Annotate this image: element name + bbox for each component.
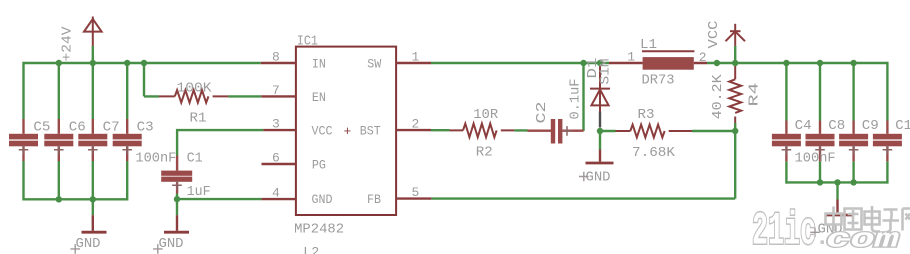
svg-text:C2: C2 [534, 102, 550, 124]
inductor L1 DR73 [609, 51, 707, 69]
pin 8 IN stub [261, 62, 296, 64]
svg-text:3: 3 [272, 117, 280, 132]
svg-text:2: 2 [699, 50, 707, 65]
svg-text:21ic: 21ic [752, 206, 816, 254]
svg-text:C5: C5 [33, 120, 50, 136]
node dot rail C4 [783, 60, 789, 66]
pin 5 FB stub [396, 197, 431, 199]
svg-text:1uF: 1uF [187, 184, 211, 200]
watermark 21ic.com + chinese characters [752, 206, 910, 254]
node dot rail R1 branch [141, 60, 147, 66]
resistor R1 100K [159, 90, 228, 103]
svg-text:IC1: IC1 [297, 34, 318, 50]
svg-text:7.68K: 7.68K [632, 145, 676, 161]
diode D1 dark anode lead [599, 112, 601, 128]
resistor R3 7.68K [616, 125, 693, 138]
svg-text:1: 1 [412, 49, 420, 64]
svg-text:R3: R3 [638, 107, 655, 123]
svg-text:C6: C6 [69, 120, 86, 136]
supply +24V symbol [84, 17, 102, 46]
svg-text:0.1uF: 0.1uF [567, 79, 583, 120]
svg-text:GND: GND [586, 170, 611, 186]
svg-text:FB: FB [367, 192, 381, 207]
svg-text:C1: C1 [187, 151, 203, 167]
origin cross C1 [172, 181, 182, 191]
wire FB pin5 riser [431, 131, 735, 199]
node dot VCC/R4 [732, 60, 738, 66]
svg-text:R1: R1 [190, 111, 207, 127]
wire VCC arrow stem [734, 46, 736, 63]
origin cross C7 [88, 145, 98, 155]
svg-text:R4: R4 [747, 83, 763, 107]
svg-text:C7: C7 [103, 120, 120, 136]
wire C7 branch [92, 46, 94, 199]
wire C8 branch [819, 63, 821, 182]
origin cross C5 [19, 145, 29, 155]
origin cross C2 [562, 126, 572, 136]
wire C6 branch [58, 63, 60, 199]
svg-text:C3: C3 [137, 120, 154, 136]
wire SW to BST riser [582, 63, 584, 131]
node dot rail C6 [56, 60, 62, 66]
pin 6 PG stub [262, 163, 296, 165]
wire diode junction to GND [599, 131, 601, 150]
capacitor C8 [806, 121, 835, 162]
ground GND2 (C1) [164, 215, 189, 232]
svg-text:S1M: S1M [598, 59, 614, 85]
wire C5 branch [22, 62, 24, 201]
origin cross C9 [849, 145, 859, 155]
svg-text:EN: EN [312, 90, 326, 105]
origin cross C8 [815, 145, 825, 155]
node dot rail C7/+24V [90, 60, 96, 66]
svg-text:7: 7 [272, 83, 280, 98]
resistor R2 10R [450, 124, 515, 138]
svg-text:C10: C10 [895, 118, 910, 134]
capacitor C7 [78, 119, 107, 161]
wire +24V top rail [24, 62, 261, 64]
svg-text:SW: SW [367, 57, 381, 72]
svg-text:+: + [344, 124, 352, 139]
node dot bottom rail C8 [817, 179, 823, 185]
capacitor C2 0.1uF [528, 119, 584, 144]
diode D1 S1M [590, 63, 610, 112]
svg-text:1: 1 [627, 50, 635, 65]
svg-text:100nF: 100nF [135, 151, 176, 167]
wire C10 branch [886, 62, 888, 184]
origin cross GND4 [810, 228, 820, 238]
svg-text:IN: IN [312, 57, 326, 72]
wire C1 bottom to GND pin4 [177, 194, 261, 216]
svg-text:5: 5 [412, 185, 420, 200]
origin cross GND3 [579, 172, 589, 182]
wire R1 branch from rail to EN pin [144, 63, 261, 96]
svg-text:6: 6 [272, 150, 280, 165]
svg-text:VCC: VCC [706, 21, 722, 49]
svg-text:PG: PG [312, 158, 326, 173]
svg-text:+24V: +24V [59, 26, 75, 62]
origin cross C4 [782, 145, 792, 155]
capacitor C9 [839, 121, 868, 162]
svg-text:GND: GND [312, 192, 333, 207]
pin 3 VCC stub [263, 129, 296, 131]
wire C4 branch [785, 63, 787, 184]
ground GND4 (right rail) [825, 200, 853, 216]
wire BST row pin2 to R2 to C2 [431, 129, 528, 132]
origin cross GND1 [70, 244, 80, 254]
node dot L1 out [714, 60, 720, 66]
node dot C1/GND/pin4 [174, 196, 180, 202]
wire VCC pin3 to C1 [177, 130, 263, 155]
origin cross C10 [883, 145, 893, 155]
char 中 [826, 207, 842, 232]
wire bottom-left GND rail [24, 199, 128, 215]
capacitor C6 [44, 119, 73, 161]
svg-text:10R: 10R [473, 107, 499, 123]
svg-text:VCC: VCC [312, 124, 333, 139]
svg-text:4: 4 [272, 185, 280, 200]
capacitor C1 1uF [161, 156, 192, 194]
wire SW node: pin1 to L1 [431, 62, 609, 64]
svg-text:DR73: DR73 [642, 73, 675, 89]
supply VCC arrow [726, 24, 746, 46]
svg-text:MP2482: MP2482 [294, 222, 344, 238]
node dot bottom rail GND [834, 179, 840, 185]
node dot SW/diode [597, 60, 603, 66]
svg-text:100nF: 100nF [795, 151, 836, 167]
char 网 [903, 209, 910, 231]
capacitor C4 [772, 121, 801, 162]
capacitor C5 [9, 119, 38, 161]
op IC1 MP2482 box [296, 47, 396, 215]
node dot rail C9 [850, 60, 856, 66]
wire bottom-right GND rail [786, 182, 887, 199]
svg-text:C9: C9 [862, 118, 879, 134]
node dot bottom rail C7/GND [90, 196, 96, 202]
capacitor C10 [873, 121, 902, 162]
svg-text:100K: 100K [177, 81, 213, 97]
svg-text:GND: GND [159, 236, 184, 252]
svg-text:2: 2 [412, 117, 420, 132]
node dot rail C8 [817, 60, 823, 66]
svg-text:C8: C8 [828, 118, 845, 134]
ground GND1 (left rail) [82, 215, 107, 232]
wire C9 branch [852, 63, 854, 182]
svg-text:R2: R2 [476, 145, 493, 161]
char 子 [883, 210, 900, 233]
svg-text:L1: L1 [640, 37, 657, 53]
node dot diode/R3/GND [597, 128, 603, 134]
wire R3 row: diode junction to R3 to R4 bottom [600, 130, 735, 132]
pin 1 SW stub [396, 62, 431, 64]
node dot R4/R3/FB [732, 128, 738, 134]
char 国 [845, 209, 862, 230]
pin 4 GND stub [261, 198, 296, 200]
node dot bottom rail C6 [56, 196, 62, 202]
capacitor C3 [113, 119, 142, 161]
origin cross C3 [122, 145, 132, 155]
wire L1 right to VCC rail [707, 62, 887, 64]
wire R4 bottom lead [734, 123, 736, 131]
svg-text:8: 8 [272, 49, 280, 64]
node dot SW/BST riser [580, 60, 586, 66]
resistor R4 40.2K vertical [729, 63, 741, 123]
origin cross GND2 [153, 244, 163, 254]
svg-text:40.2K: 40.2K [710, 74, 726, 120]
origin cross C6 [54, 145, 64, 155]
svg-text:L2: L2 [303, 245, 319, 254]
pin 2 BST stub [396, 129, 431, 131]
node dot rail C3 [124, 60, 130, 66]
svg-text:C4: C4 [795, 118, 812, 134]
svg-text:GND: GND [76, 236, 101, 252]
pin 7 EN stub [261, 95, 296, 97]
node dot bottom rail C9 [850, 179, 856, 185]
ground GND3 (diode) [586, 150, 614, 164]
wire C3 branch [126, 63, 128, 201]
char 电 [865, 206, 881, 232]
svg-text:BST: BST [360, 124, 381, 139]
